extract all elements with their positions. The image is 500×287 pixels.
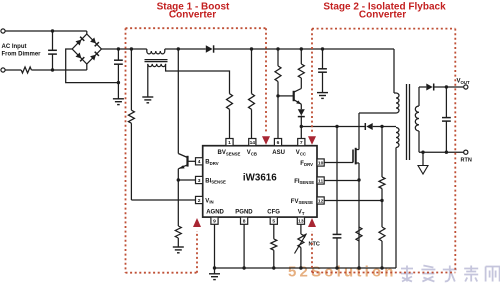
svg-text:RTN: RTN: [461, 158, 472, 164]
svg-text:9: 9: [213, 219, 216, 225]
svg-text:1: 1: [228, 140, 231, 146]
svg-text:VCB: VCB: [247, 150, 257, 156]
svg-text:FISENSE: FISENSE: [294, 179, 314, 185]
svg-text:CFG: CFG: [267, 210, 280, 216]
svg-text:11: 11: [318, 178, 323, 184]
svg-text:13: 13: [298, 219, 304, 225]
svg-text:AGND: AGND: [206, 210, 224, 216]
svg-text:NTC: NTC: [309, 242, 320, 248]
svg-text:FVSENSE: FVSENSE: [291, 199, 313, 205]
svg-text:From Dimmer: From Dimmer: [2, 51, 42, 57]
svg-text:Converter: Converter: [359, 9, 406, 20]
svg-text:VT: VT: [298, 210, 305, 216]
svg-text:7: 7: [300, 140, 303, 146]
svg-text:6: 6: [277, 140, 280, 146]
svg-text:AC Input: AC Input: [2, 44, 27, 50]
svg-text:Converter: Converter: [169, 9, 216, 20]
svg-text:5: 5: [272, 219, 275, 225]
svg-text:VOUT: VOUT: [457, 79, 470, 85]
svg-text:14: 14: [250, 140, 256, 146]
svg-text:BISENSE: BISENSE: [205, 178, 226, 184]
svg-text:iW3616: iW3616: [243, 172, 277, 183]
svg-text:10: 10: [318, 160, 324, 166]
svg-text:3: 3: [198, 178, 201, 184]
svg-text:VCC: VCC: [296, 150, 306, 156]
svg-text:ASU: ASU: [272, 150, 285, 156]
svg-text:2: 2: [198, 198, 201, 204]
svg-text:BVSENSE: BVSENSE: [218, 150, 241, 156]
svg-text:FDRV: FDRV: [300, 161, 313, 167]
svg-text:BDRV: BDRV: [205, 160, 218, 166]
svg-text:52Solution: 52Solution: [288, 264, 397, 281]
svg-text:PGND: PGND: [235, 210, 253, 216]
svg-text:8: 8: [243, 219, 246, 225]
svg-text:VIN: VIN: [205, 198, 213, 204]
svg-text:4: 4: [198, 159, 201, 165]
svg-text:12: 12: [318, 198, 324, 204]
